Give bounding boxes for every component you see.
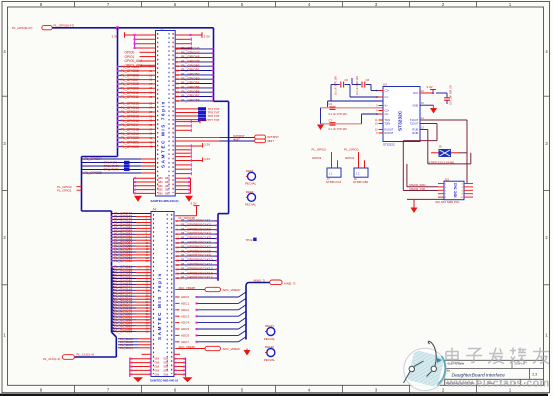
wire J2 left GPIO0_ADJ [125, 59, 156, 63]
bus step right above J4 [82, 210, 112, 212]
wire PL_GPIO08 row [117, 82, 156, 86]
svg-text:IDC 5x2: IDC 5x2 [453, 182, 458, 197]
wire PL_GPIO07 row [117, 78, 156, 82]
wire ADC7 [175, 337, 246, 344]
svg-text:3.3V: 3.3V [427, 85, 433, 89]
wire PL_GPIO04 row [117, 65, 156, 69]
sheet bottom black bar [0, 394, 548, 396]
svg-text:PL_GPIO09: PL_GPIO09 [121, 87, 139, 91]
svg-text:PL_GPIO58/GCLK10: PL_GPIO58/GCLK10 [181, 258, 213, 262]
svg-text:PL_GPIO50: PL_GPIO50 [181, 64, 199, 68]
wire PL_GPIO15 row [117, 114, 156, 118]
op-amp U3 body ST3232C [383, 87, 420, 142]
svg-text:3.3V: 3.3V [112, 35, 118, 39]
wire PL_GPIO53 right row [175, 77, 213, 81]
svg-text:ADC2: ADC2 [181, 308, 189, 312]
svg-text:3.3V: 3.3V [191, 201, 197, 205]
wire PL_GPIO73 left row [112, 291, 152, 296]
wire ADC4 [175, 318, 246, 325]
wire PL_GPIO47 right row [175, 51, 213, 55]
wire PL_CLK4 [118, 346, 151, 350]
net label PL_GPIO1 tap [57, 188, 82, 192]
wire J4 pin1 PL_GPIO47 [112, 212, 152, 216]
svg-text:ADC0: ADC0 [181, 295, 189, 299]
title block frame [445, 360, 544, 385]
wire T1OUT to J9 and IDC [420, 117, 467, 184]
svg-text:GPIO0_ADJ: GPIO0_ADJ [125, 59, 143, 63]
ground symbol J4 left [133, 377, 143, 382]
svg-text:GB6: GB6 [165, 181, 170, 184]
capacitor C6 [331, 76, 350, 95]
test point TP4 [175, 107, 220, 111]
wire V+ net [321, 107, 384, 109]
svg-text:PL_GPIO57/GCLK9: PL_GPIO57/GCLK9 [181, 254, 211, 258]
wire PL_GPIO49 right row [175, 60, 213, 64]
bus step left at J4 top [218, 213, 229, 215]
svg-text:PL_GPIO56/GCLK8: PL_GPIO56/GCLK8 [181, 249, 211, 253]
svg-text:GPIO1: GPIO1 [125, 55, 135, 59]
svg-text:AIN[0..7]: AIN[0..7] [254, 279, 265, 283]
wire PL_GPIO54 right row [175, 241, 218, 245]
test point TP10 [82, 164, 156, 168]
wire PL_GPIO83 left row [112, 320, 152, 325]
wire cap C8 to C1+ [371, 85, 383, 91]
power 3.3V J2 right a [175, 118, 207, 123]
wire VCC to 3.3V [420, 85, 436, 94]
svg-text:ADC_VREFF: ADC_VREFF [179, 345, 196, 349]
wire PL_GPIO67 left row [112, 273, 152, 278]
wire PL_GPIO76 left row [112, 300, 152, 305]
svg-text:GPIO3: GPIO3 [312, 156, 322, 160]
svg-text:PL_GPIO63: PL_GPIO63 [114, 259, 132, 263]
svg-text:GB6: GB6 [154, 362, 159, 365]
svg-text:PL_GPIO51: PL_GPIO51 [181, 68, 199, 72]
svg-text:4INIT: 4INIT [233, 137, 240, 141]
svg-text:PL_GPIO50/GCLK2: PL_GPIO50/GCLK2 [181, 223, 211, 227]
svg-text:ADC_VREFP: ADC_VREFP [223, 288, 241, 292]
title block texts [446, 363, 537, 385]
bus PL_CLK vertical [115, 337, 117, 357]
ground comb J4 left [130, 354, 169, 377]
net flag ADC_VREFF [205, 346, 241, 351]
wire ground rail caps [320, 108, 322, 124]
svg-text:PL_GPIO21: PL_GPIO21 [121, 141, 139, 145]
wire PL_GPIO81 left row [112, 314, 152, 319]
wire PL_GPIO62 right row [175, 276, 218, 280]
wire PL_GPIO54 right row [175, 81, 213, 85]
svg-text:PL_GPIO49/GCLK1: PL_GPIO49/GCLK1 [181, 219, 211, 223]
svg-text:www.elecfans.com: www.elecfans.com [446, 378, 550, 390]
crystal REF#1 PECVAL [264, 324, 276, 341]
wire J2 left GPIO1 [125, 55, 156, 59]
wire cap C6 to C1- [350, 85, 383, 98]
svg-text:PL_GPIO60/GCLK12: PL_GPIO60/GCLK12 [181, 267, 213, 271]
crystal REF9 PECVAL [245, 190, 257, 207]
svg-text:PL_GPIO52/GCLK4: PL_GPIO52/GCLK4 [181, 232, 211, 236]
power 3.3V J2 right c [175, 157, 210, 162]
wire PL_GPIO58 right row [175, 99, 213, 103]
test point TP5 [175, 111, 220, 115]
wire PL_GPIO49 left row [111, 218, 151, 222]
wire ADC_VREFF [175, 345, 205, 349]
wire PL_GPIO51 right row [175, 227, 218, 231]
wire PL_CLK1 [118, 337, 151, 341]
bus PL_GPIO top horizontal [52, 27, 213, 29]
test point TP7 [175, 118, 220, 122]
wire PL_GPIO79 left row [112, 308, 152, 313]
frame row labels [3, 49, 548, 338]
capacitor C8 [352, 76, 371, 95]
wire PL_GPIO49 right row [175, 219, 218, 223]
svg-text:RS232_TXD: RS232_TXD [410, 187, 426, 191]
wire ADC_VREFP [175, 286, 205, 290]
svg-text:GB6: GB6 [154, 366, 159, 369]
net label PL_GPIO0 tap [57, 185, 82, 189]
svg-text:ADC6: ADC6 [181, 334, 189, 338]
wire PL_GPIO58 left row [111, 244, 151, 248]
svg-text:PL_GPIO2: PL_GPIO2 [312, 148, 327, 152]
U9 pin stubs [438, 184, 473, 200]
svg-text:GPIO0: GPIO0 [125, 50, 135, 54]
U3 left pin stubs [375, 90, 383, 136]
capacitor C9 on VCC [436, 85, 453, 105]
svg-text:ST3232C: ST3232C [383, 143, 395, 147]
wire PL_GPIO52 right row [175, 73, 213, 77]
svg-text:PL_GPIO28: PL_GPIO28 [85, 171, 102, 175]
wire PL_GPIO70 left row [112, 282, 152, 287]
svg-text:PL_GPIO55: PL_GPIO55 [181, 86, 199, 90]
wire ADC3 [175, 311, 246, 318]
svg-text:PL_GPIO05: PL_GPIO05 [121, 69, 139, 73]
svg-text:GB6: GB6 [158, 177, 163, 180]
svg-text:ADC7: ADC7 [181, 340, 189, 344]
svg-text:GPIO4: GPIO4 [345, 156, 355, 160]
ground comb J4 right [174, 354, 186, 377]
wire PL_GPIO10 row [117, 91, 156, 95]
svg-text:PL_GPIO20: PL_GPIO20 [121, 136, 139, 140]
svg-text:3.3V: 3.3V [204, 142, 210, 146]
wire PL_GPIO86 left row [112, 329, 152, 334]
ground symbol J2 right [185, 196, 193, 202]
wire PL_GPIO21 row [117, 140, 156, 144]
bus PL_GPIO left vertical [117, 28, 119, 157]
wire PL_CLK3 [118, 343, 151, 347]
svg-text:PL_GPIO14: PL_GPIO14 [121, 110, 139, 114]
watermark logo trace [404, 341, 443, 383]
svg-text:GB6: GB6 [163, 358, 168, 361]
crystal REF#2 PECVAL [264, 345, 276, 362]
wire U9 ground [407, 199, 444, 207]
net flag PL_GPIO[0:47] [12, 24, 74, 31]
wire J2 right no-connect stub [175, 124, 191, 127]
svg-text:PL_GPIO24: PL_GPIO24 [85, 157, 102, 161]
power 3.3V above J4 [191, 201, 200, 216]
svg-text:SAMTEC MIS 76pin: SAMTEC MIS 76pin [157, 272, 162, 340]
wire J2 left pin row 1 [134, 34, 156, 36]
wire PL_GPIO54 left row [111, 232, 151, 236]
wire PL_GPIO61 right row [175, 271, 218, 275]
svg-text:PL_GPIO[0:47]: PL_GPIO[0:47] [12, 26, 33, 30]
wire PL_GPIO80 left row [112, 311, 152, 316]
wire PL_GPIO14 row [117, 110, 156, 114]
svg-text:4INIT: 4INIT [267, 139, 274, 143]
capacitor C4 [329, 102, 348, 116]
svg-text:PL_GPIO58: PL_GPIO58 [181, 99, 199, 103]
wire PL_GPIO62 left row [111, 256, 151, 260]
wire PL_GPIO05 row [117, 69, 156, 73]
svg-text:3.3V: 3.3V [204, 34, 210, 38]
bus J4 right vertical [217, 214, 219, 281]
svg-text:PL_GPIO3: PL_GPIO3 [344, 148, 359, 152]
wire PL_GPIO57 right row [175, 94, 213, 98]
wire PL_GPIO82 left row [112, 317, 152, 322]
wire J2 right stub row 1 [175, 38, 191, 41]
svg-text:STRIP-2X3-2.54-MD: STRIP-2X3-2.54-MD [429, 160, 455, 164]
svg-text:SAMTEC-MIS-040-01: SAMTEC-MIS-040-01 [150, 379, 179, 383]
wire PL_CLK2 [118, 340, 151, 344]
wire PL_GPIO24 row lower [82, 157, 156, 161]
svg-text:PL_GPIO57: PL_GPIO57 [181, 94, 199, 98]
wire PL_GPIO78 left row [112, 305, 152, 310]
svg-text:ADC3: ADC3 [181, 314, 189, 318]
crystal REF4 PECVAL [245, 169, 257, 186]
svg-text:GB6: GB6 [163, 373, 168, 376]
svg-text:ADC5: ADC5 [181, 327, 189, 331]
bus step left [82, 156, 118, 158]
svg-text:PL_GPIO06: PL_GPIO06 [121, 74, 139, 78]
svg-text:ADC4: ADC4 [181, 321, 189, 325]
bus right vertical x228 [228, 101, 230, 213]
wire PL_GPIO51 right row [175, 68, 213, 72]
wire PL_GPIO50 left row [111, 221, 151, 225]
wire ADC6 [175, 330, 246, 337]
wire J2 left GPIO0 [125, 50, 156, 54]
svg-text:PL_GPIO54/GCLK6: PL_GPIO54/GCLK6 [181, 241, 211, 245]
svg-text:PL_GPIO53/GCLK5: PL_GPIO53/GCLK5 [181, 236, 211, 240]
wire PL_GPIO68 left row [112, 276, 152, 281]
wire PL_GPIO16 row [117, 119, 156, 123]
svg-text:PL_GPIO12: PL_GPIO12 [121, 102, 139, 106]
wire PL_GPIO22 row [117, 145, 156, 149]
svg-text:PL_GPIO46: PL_GPIO46 [181, 47, 199, 51]
wire PL_GPIO53 left row [111, 229, 151, 233]
watermark chinese characters [446, 348, 549, 364]
wire PL_GPIO58 right row [175, 258, 218, 262]
test point TP9 [82, 161, 156, 165]
svg-text:ST3232C: ST3232C [398, 110, 404, 131]
svg-text:SAMTEC MIS 76pin: SAMTEC MIS 76pin [160, 100, 165, 168]
ground symbol caps [317, 125, 324, 131]
wire PL_GPIO50 right row [175, 223, 218, 227]
wire PL_GPIO66 left row [112, 270, 152, 275]
svg-text:PL_GPIO11: PL_GPIO11 [121, 95, 139, 99]
svg-text:PL_GPIO10: PL_GPIO10 [121, 91, 139, 95]
svg-text:GB6: GB6 [154, 358, 159, 361]
wire PL_GPIO65 left row [112, 267, 152, 272]
bus 45-degree jog to PL_CLK [112, 332, 117, 337]
wire PL_GPIO09 row [117, 86, 156, 90]
ground symbol J2 left [134, 196, 142, 202]
connector J8 STRIP-GB1 [344, 148, 369, 185]
svg-text:GB6: GB6 [165, 189, 170, 192]
svg-text:GB6: GB6 [158, 192, 163, 195]
wire PL_GPIO63 left row [111, 259, 151, 263]
ground comb J2 left [134, 177, 164, 195]
svg-text:PL_GPIO1: PL_GPIO1 [57, 188, 72, 192]
wire PL_GPIO19 row [117, 132, 156, 136]
svg-text:PL_GPIO55/GCLK7: PL_GPIO55/GCLK7 [181, 245, 211, 249]
test point TP6 [175, 114, 220, 118]
net flag ADC_VREFP [205, 287, 241, 292]
wire J4 pin2 row [175, 216, 196, 220]
svg-text:PL_GPIO49: PL_GPIO49 [181, 60, 199, 64]
bus PL_GPIO outer-left vertical [81, 157, 83, 212]
svg-text:3.3V: 3.3V [204, 157, 210, 161]
svg-text:GB6: GB6 [165, 177, 170, 180]
ground symbol ADC_VREFF [244, 349, 251, 356]
wire PL_GPIO57 right row [175, 254, 218, 258]
net flag PL_CLK[1:4] [43, 353, 94, 361]
svg-text:PL_GPIO86: PL_GPIO86 [114, 330, 132, 334]
net flag AIN[0..7] [254, 279, 296, 286]
svg-text:PL_CLK[1:4]: PL_CLK[1:4] [43, 357, 60, 361]
wire 3.3V comb rail left [125, 35, 135, 48]
connector U9 IDC 5x2 [444, 178, 464, 200]
wire ADC5 [175, 324, 246, 331]
svg-text:PL_GPIO22: PL_GPIO22 [121, 145, 139, 149]
wire J2 pin2 to 3.3V [175, 32, 210, 38]
wire PL_GPIO55 right row [175, 86, 213, 90]
svg-text:PL_GPIO62/GCLK14: PL_GPIO62/GCLK14 [181, 276, 213, 280]
svg-text:PL_GPIO08: PL_GPIO08 [121, 82, 139, 86]
wire PL_GPIO55 right row [175, 245, 218, 249]
wire PL_GPIO48 right row [175, 55, 213, 59]
wire PL_GPIO59 right row [175, 263, 218, 267]
svg-text:PL_GPIO51/GCLK3: PL_GPIO51/GCLK3 [181, 227, 211, 231]
svg-text:GB6: GB6 [163, 366, 168, 369]
wire caps left rail [328, 78, 383, 108]
bus step right at J2 [214, 100, 229, 102]
svg-text:2.3: 2.3 [532, 373, 537, 377]
svg-text:INIT/RST: INIT/RST [267, 135, 279, 139]
wire PL_GPIO64 left row [111, 265, 151, 269]
wire PL_GPIO53 right row [175, 236, 218, 240]
ground symbol J4 right [183, 377, 193, 382]
wire J2 right no-connect stub [175, 129, 191, 132]
wire INIT/RST [175, 137, 254, 139]
svg-text:PL_GPIO48: PL_GPIO48 [181, 55, 199, 59]
wire PL_GPIO52 left row [111, 227, 151, 231]
bus J4 left vertical [111, 211, 113, 332]
svg-text:TP11 TNT9: TP11 TNT9 [104, 168, 120, 172]
bus junction [116, 26, 119, 29]
svg-text:PECVAL: PECVAL [245, 182, 257, 186]
wire PL_GPIO12 row [117, 101, 156, 105]
wire J2 left pin row 5 [134, 43, 156, 45]
wire J2 right no-connect stub [175, 148, 191, 151]
bus PL_CLK horizontal to flag [74, 356, 116, 358]
svg-text:GB6: GB6 [158, 185, 163, 188]
wire J2 right stub row 3 [175, 46, 191, 49]
svg-text:PECVAL: PECVAL [245, 203, 257, 207]
svg-text:2U W x H: 2U W x H [515, 363, 526, 366]
test point TP12 [246, 238, 257, 243]
wire PL_GPIO18 row [117, 127, 156, 131]
wire PL_GPIO60 right row [175, 267, 218, 271]
svg-text:PL_GPIO07: PL_GPIO07 [121, 78, 139, 82]
svg-text:PL_GPIO04: PL_GPIO04 [121, 65, 139, 69]
wire J2 right stub row 2 [175, 42, 191, 45]
wire PL_GPIO56 right row [175, 90, 213, 94]
wire PL_GPIO52 right row [175, 232, 218, 236]
wire PL_GPIO71 left row [112, 285, 152, 290]
svg-text:GB6: GB6 [163, 369, 168, 372]
svg-text:GB6: GB6 [158, 181, 163, 184]
svg-text:PL_GPIO18: PL_GPIO18 [121, 128, 139, 132]
svg-text:GB6: GB6 [165, 192, 170, 195]
svg-text:PL_GPIO59/GCLK11: PL_GPIO59/GCLK11 [181, 263, 212, 267]
capacitor C7 [329, 118, 348, 131]
wire PL_GPIO51 left row [111, 224, 151, 228]
svg-text:PL_GPIO61/GCLK13: PL_GPIO61/GCLK13 [181, 271, 213, 275]
wire PL_GPIO75 left row [112, 297, 152, 302]
svg-text:PL_GPIO54: PL_GPIO54 [181, 81, 199, 85]
svg-text:PL_GPIO47: PL_GPIO47 [181, 51, 199, 55]
svg-text:C9 0.1 uF X5R 10V: C9 0.1 uF X5R 10V [451, 85, 453, 105]
wire ADC0 [175, 292, 246, 299]
bus AIN vertical [246, 283, 270, 340]
svg-text:RS232_RXD: RS232_RXD [410, 183, 426, 187]
svg-text:ADC_VREFF: ADC_VREFF [223, 347, 241, 351]
wire PL_GPIO57 left row [111, 241, 151, 245]
wire PL_GPIO61 left row [111, 253, 151, 257]
svg-text:PL_GPIO56: PL_GPIO56 [181, 90, 199, 94]
wire J2 left GPIO1_ADJ [125, 63, 156, 67]
wire ADC2 [175, 305, 246, 312]
ground comb J2 right [165, 177, 191, 195]
ground symbol U3 [430, 108, 437, 114]
svg-text:PL_GPIO13: PL_GPIO13 [121, 106, 139, 110]
svg-text:GB6: GB6 [163, 362, 168, 365]
wire PL_GPIO72 left row [112, 288, 152, 293]
wire RXD branch [407, 164, 438, 187]
wire PL_GPIO56 left row [111, 238, 151, 242]
svg-text:PL_GPIO52: PL_GPIO52 [181, 73, 199, 77]
wire PL_GPIO84 left row [112, 323, 152, 328]
wire J2 left pin row 3 [134, 38, 156, 40]
svg-text:ADC1: ADC1 [181, 302, 189, 306]
wire PL_GPIO17 row [117, 123, 156, 127]
svg-text:IDC 5X2 SMD POL: IDC 5X2 SMD POL [436, 200, 460, 204]
svg-text:GB6: GB6 [154, 369, 159, 372]
wire PL_GPIO74 left row [112, 294, 152, 299]
svg-text:3.3V: 3.3V [202, 118, 208, 122]
svg-text:ADC_VREFP: ADC_VREFP [179, 286, 196, 290]
svg-text:GB6: GB6 [165, 185, 170, 188]
wire J2 left pin row 7 [134, 47, 156, 49]
wire PL_GPIO28 row lower [82, 171, 156, 175]
wire GND pin U3 [420, 102, 434, 108]
frame column ticks [75, 2, 477, 393]
svg-text:PL_GPIO19: PL_GPIO19 [121, 132, 139, 136]
wire V- net [321, 114, 384, 124]
connector J2 body [156, 31, 176, 197]
svg-text:PL_CLK[1:4]: PL_CLK[1:4] [77, 353, 94, 357]
wire J2 right no-connect stub [175, 168, 191, 171]
net flag INIT/RST [233, 134, 279, 139]
wire PL_GPIO69 left row [112, 279, 152, 284]
wire PL_GPIO50 right row [175, 64, 213, 68]
